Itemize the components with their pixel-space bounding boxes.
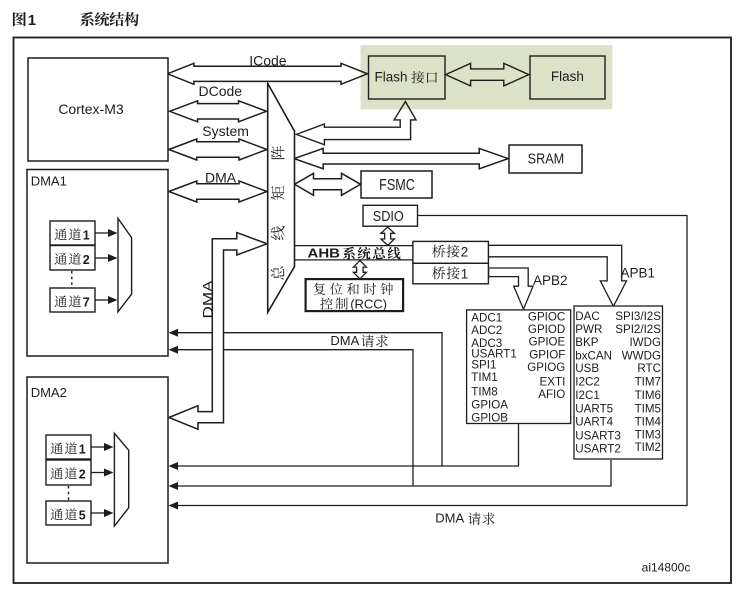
svg-text:TIM4: TIM4 — [635, 416, 662, 429]
svg-text:2: 2 — [79, 468, 86, 482]
svg-text:1: 1 — [28, 12, 36, 29]
svg-text:DMA: DMA — [435, 511, 464, 526]
svg-text:FSMC: FSMC — [379, 177, 415, 194]
svg-text:ai14800c: ai14800c — [642, 561, 691, 575]
svg-text:SPI3/I2S: SPI3/I2S — [615, 310, 661, 323]
svg-text:TIM6: TIM6 — [635, 389, 661, 402]
svg-text:Flash: Flash — [375, 70, 408, 85]
svg-text:System: System — [202, 123, 249, 139]
svg-text:DMA1: DMA1 — [31, 174, 67, 189]
svg-text:2: 2 — [461, 245, 469, 260]
svg-text:USB: USB — [575, 362, 599, 375]
svg-text:WWDG: WWDG — [622, 349, 661, 362]
svg-text:SPI1: SPI1 — [471, 359, 496, 372]
svg-text:SPI2/I2S: SPI2/I2S — [615, 323, 661, 336]
svg-text:SDIO: SDIO — [373, 208, 404, 225]
svg-text:APB2: APB2 — [533, 273, 568, 288]
svg-text:TIM8: TIM8 — [471, 386, 497, 399]
svg-text:GPIOA: GPIOA — [471, 399, 508, 412]
svg-text:1: 1 — [83, 229, 90, 243]
svg-text:RTC: RTC — [637, 362, 661, 375]
svg-text:EXTI: EXTI — [540, 375, 566, 388]
svg-text:ADC2: ADC2 — [471, 324, 502, 337]
svg-text:7: 7 — [83, 296, 90, 310]
svg-text:TIM5: TIM5 — [635, 402, 661, 415]
svg-text:1: 1 — [79, 443, 86, 457]
svg-text:(RCC): (RCC) — [350, 296, 387, 311]
svg-text:UART4: UART4 — [575, 416, 613, 429]
svg-text:USART3: USART3 — [575, 429, 621, 442]
svg-text:UART5: UART5 — [575, 402, 613, 415]
svg-text:GPIOF: GPIOF — [529, 348, 565, 361]
svg-text:ICode: ICode — [249, 53, 287, 69]
svg-text:TIM3: TIM3 — [635, 428, 661, 441]
svg-text:Cortex-M3: Cortex-M3 — [58, 101, 124, 117]
svg-text:1: 1 — [461, 267, 469, 282]
svg-text:TIM7: TIM7 — [635, 376, 661, 389]
svg-text:I2C2: I2C2 — [575, 376, 600, 389]
svg-text:DAC: DAC — [575, 310, 599, 323]
svg-text:GPIOG: GPIOG — [527, 361, 565, 374]
svg-text:GPIOD: GPIOD — [528, 323, 565, 336]
svg-text:GPIOE: GPIOE — [529, 336, 566, 349]
svg-text:PWR: PWR — [575, 323, 602, 336]
svg-text:I2C1: I2C1 — [575, 389, 600, 402]
svg-text:5: 5 — [79, 509, 86, 523]
svg-text:DMA: DMA — [205, 170, 237, 186]
svg-text:bxCAN: bxCAN — [575, 349, 612, 362]
svg-text:DCode: DCode — [199, 83, 243, 99]
svg-text:APB1: APB1 — [621, 266, 656, 281]
svg-text:TIM2: TIM2 — [635, 441, 661, 454]
svg-text:AFIO: AFIO — [538, 388, 565, 401]
svg-text:DMA: DMA — [201, 281, 216, 319]
svg-text:2: 2 — [83, 253, 90, 267]
svg-text:BKP: BKP — [575, 336, 598, 349]
svg-text:GPIOC: GPIOC — [528, 310, 565, 323]
svg-text:IWDG: IWDG — [629, 336, 661, 349]
svg-text:TIM1: TIM1 — [471, 371, 497, 384]
svg-text:DMA: DMA — [330, 333, 359, 348]
svg-text:ADC1: ADC1 — [471, 311, 502, 324]
svg-text:USART2: USART2 — [575, 442, 621, 455]
svg-text:AHB: AHB — [308, 246, 341, 260]
svg-text:GPIOB: GPIOB — [471, 411, 508, 424]
svg-text:DMA2: DMA2 — [31, 385, 67, 400]
svg-text:SRAM: SRAM — [528, 151, 565, 167]
svg-text:Flash: Flash — [551, 69, 584, 84]
